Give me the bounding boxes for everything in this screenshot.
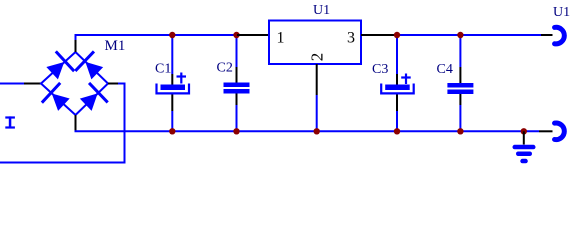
- junction dot C2 top: [233, 32, 239, 38]
- bridge rectifier M1 diamond outline: [41, 52, 108, 115]
- wire top rail left section: [76, 35, 238, 40]
- svg-text:C3: C3: [372, 62, 388, 77]
- wire top rail right section: [396, 34, 541, 36]
- pin lead connector bottom: [539, 130, 553, 132]
- label C3: [372, 62, 388, 77]
- ground symbol: [513, 145, 536, 164]
- diode bottom-left of bridge M1: [42, 83, 73, 115]
- pin 3 lead of U1: [361, 34, 396, 36]
- connector U1 top (crescent): [555, 27, 565, 44]
- capacitor C2: [224, 35, 250, 131]
- junction dot pin2 bottom: [314, 128, 320, 134]
- pin number 1: [277, 30, 285, 47]
- junction dot C4 top: [457, 32, 463, 38]
- svg-text:3: 3: [347, 30, 355, 47]
- pin number 3: [347, 30, 355, 47]
- svg-text:U1: U1: [313, 3, 330, 18]
- svg-text:1: 1: [277, 30, 285, 47]
- pin lead connector top: [541, 34, 553, 36]
- pin 2 lead of U1: [316, 64, 318, 95]
- pin number 2 (rotated): [308, 53, 327, 62]
- diode top-right of bridge M1: [75, 51, 106, 83]
- wire bottom rail: [75, 130, 540, 132]
- label C2: [217, 61, 233, 76]
- transformer I-beam glyph (left edge): [5, 116, 15, 128]
- label U1 (regulator): [313, 3, 330, 18]
- connector bottom (crescent): [555, 123, 565, 140]
- junction dot C4 bottom: [457, 128, 463, 134]
- label M1: [105, 38, 126, 54]
- regulator U1 box: [269, 21, 361, 65]
- pin lead bridge M1 left (AC1): [24, 83, 42, 85]
- pin lead bridge M1 right (AC2): [108, 83, 118, 85]
- diode bottom-right of bridge M1: [76, 83, 107, 115]
- svg-text:C1: C1: [155, 61, 171, 76]
- pin lead bridge M1 top (+): [75, 40, 77, 52]
- label C4: [437, 62, 453, 77]
- junction dot C1 bottom: [169, 128, 175, 134]
- wire AC return path: [0, 84, 125, 163]
- svg-text:C2: C2: [217, 61, 233, 76]
- junction dot C1 top: [169, 32, 175, 38]
- junction dot ground: [521, 128, 527, 134]
- junction dot C3 bottom: [394, 128, 400, 134]
- capacitor C3: [381, 35, 414, 131]
- junction dot C2 bottom: [233, 128, 239, 134]
- label U1 (connector): [553, 5, 570, 20]
- svg-text:U1: U1: [553, 5, 570, 20]
- pin lead bridge M1 bottom (-): [75, 115, 77, 131]
- capacitor C1: [157, 35, 190, 131]
- wire pin2 to bottom rail: [316, 95, 318, 131]
- pin lead ground: [523, 131, 525, 144]
- svg-text:2: 2: [308, 53, 327, 62]
- svg-text:C4: C4: [437, 62, 453, 77]
- capacitor C4: [447, 35, 473, 131]
- junction dot C3 top: [394, 32, 400, 38]
- label C1: [155, 61, 171, 76]
- svg-text:M1: M1: [105, 38, 126, 54]
- pin 1 lead of U1: [237, 34, 269, 36]
- diode top-left of bridge M1: [43, 51, 74, 83]
- wire AC input top-left: [0, 83, 24, 85]
